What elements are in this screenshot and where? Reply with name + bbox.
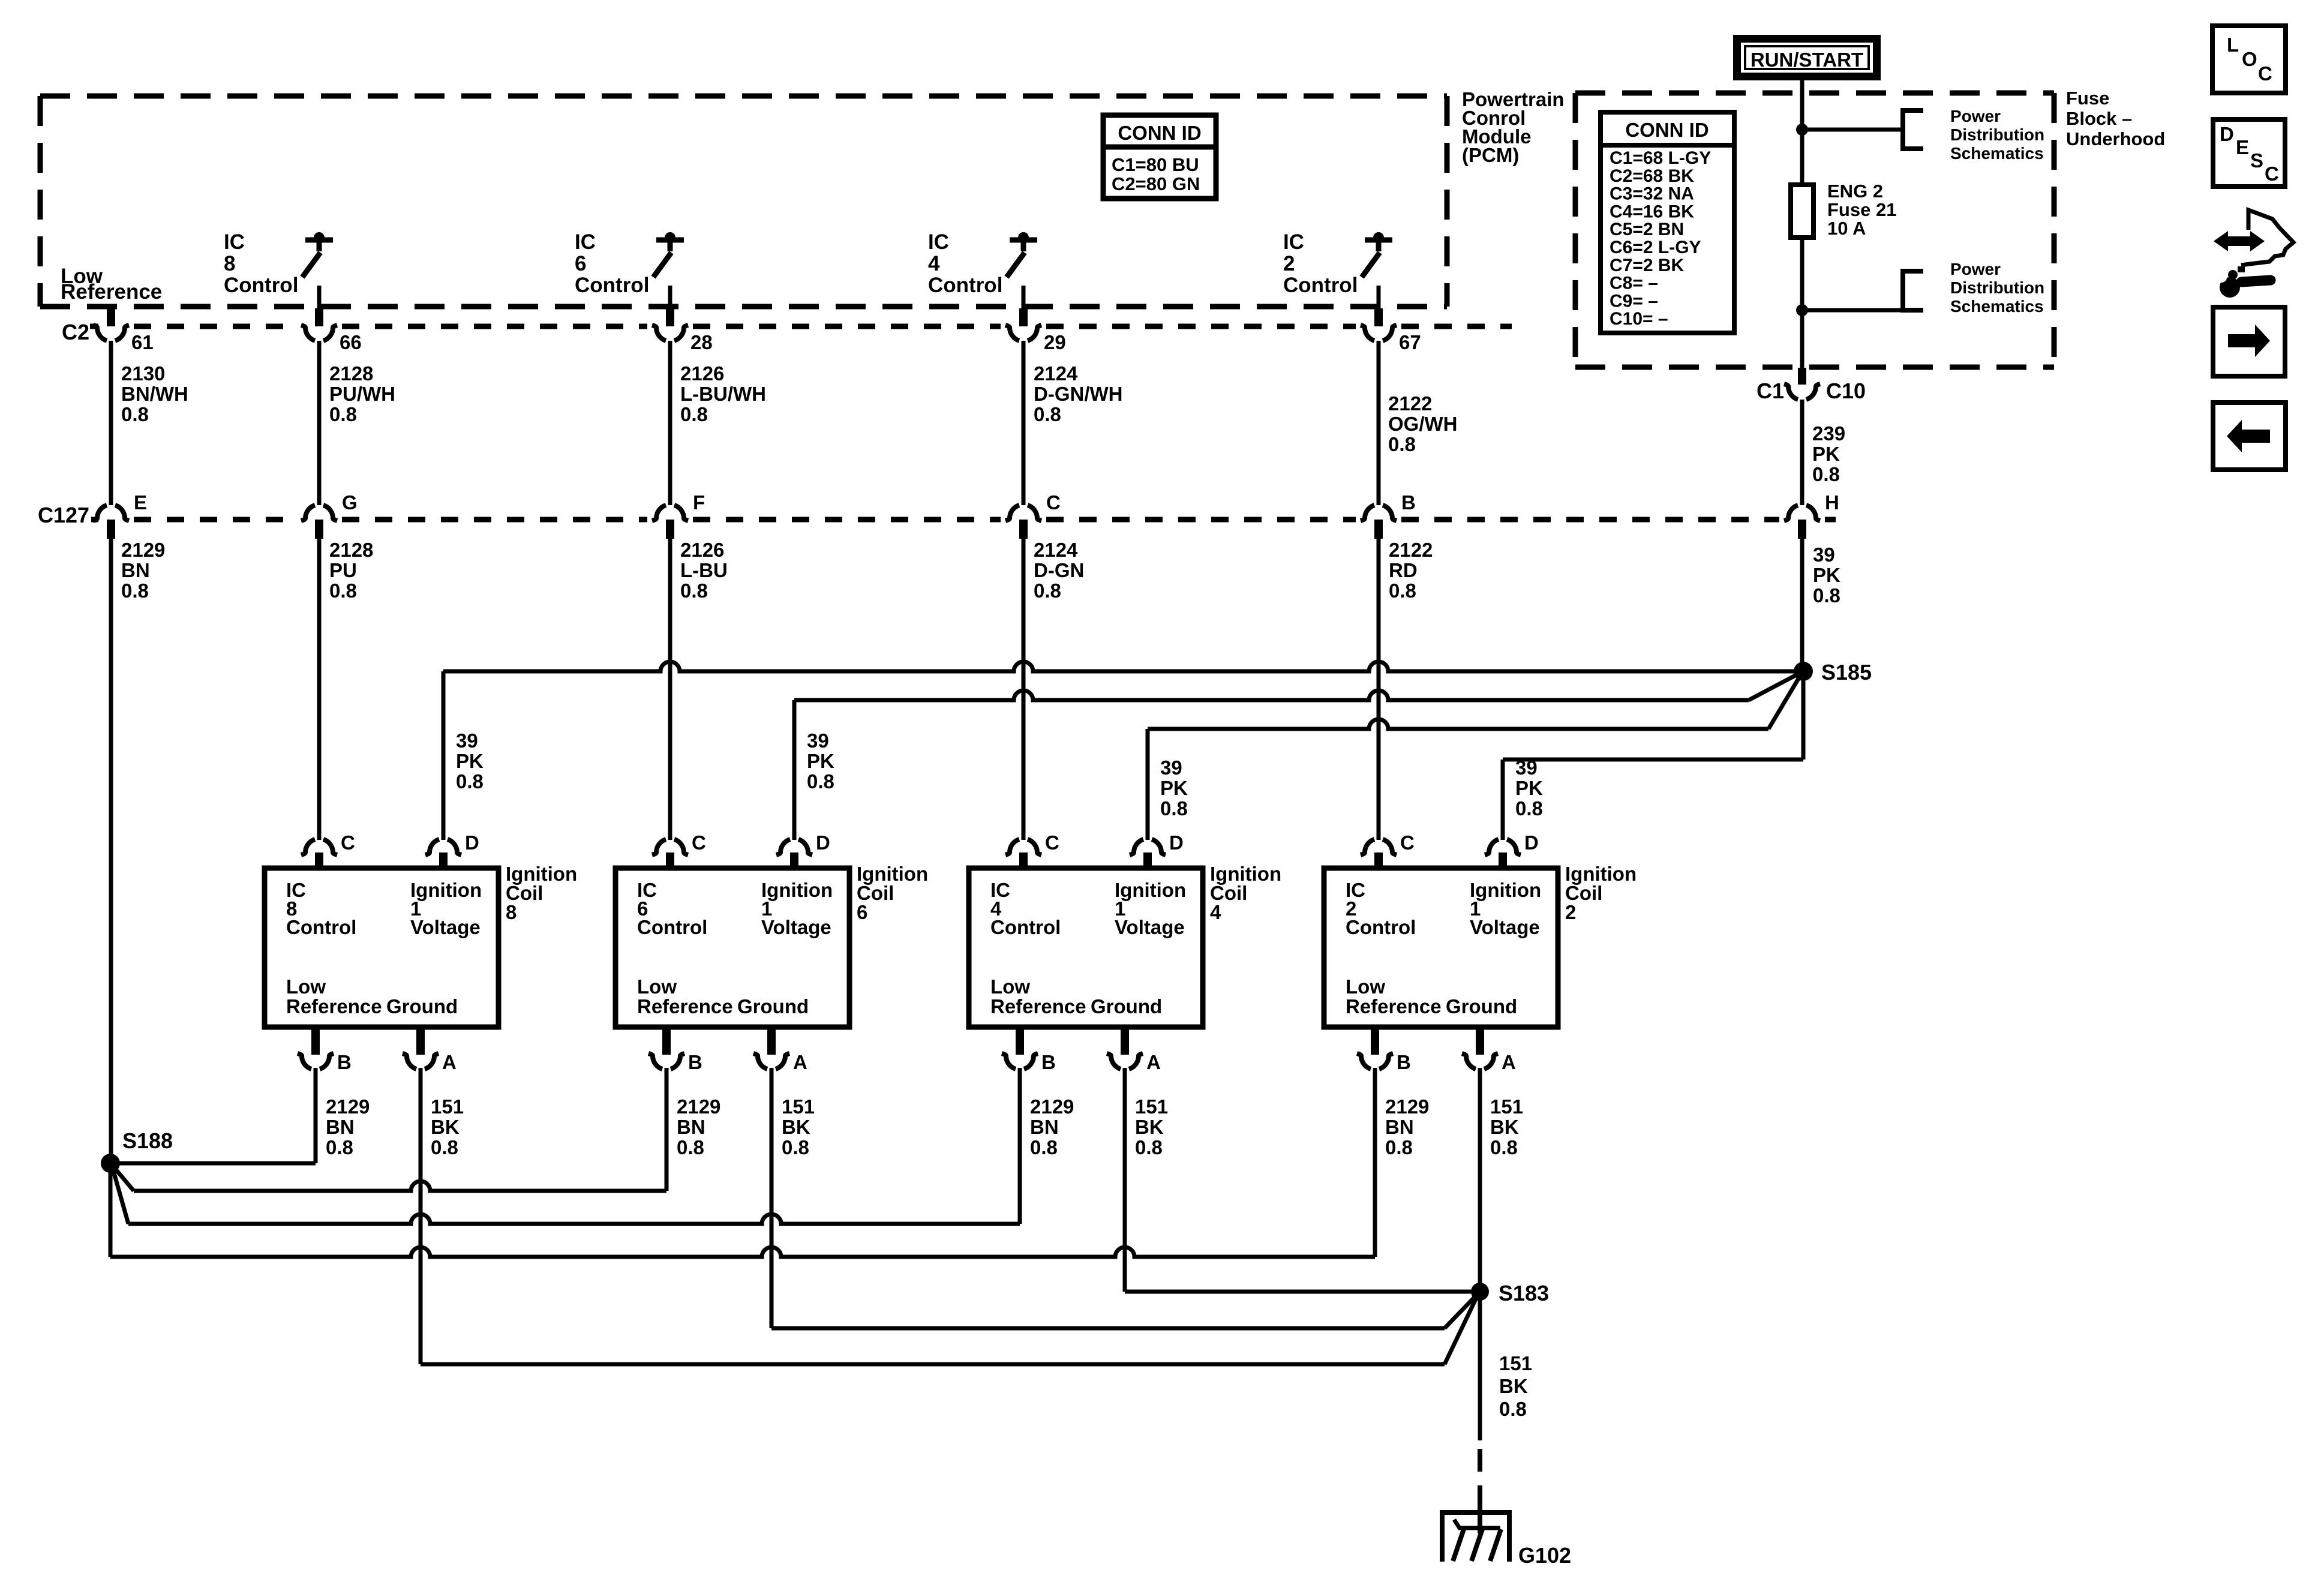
svg-text:0.8: 0.8 <box>1813 584 1840 607</box>
svg-text:Ground: Ground <box>737 995 809 1017</box>
svg-text:C1=68 L-GY: C1=68 L-GY <box>1610 148 1711 168</box>
svg-text:Low: Low <box>1346 975 1385 998</box>
svg-text:0.8: 0.8 <box>1490 1136 1518 1158</box>
svg-text:PK: PK <box>1812 443 1840 465</box>
svg-text:0.8: 0.8 <box>329 580 357 602</box>
svg-text:L: L <box>2227 34 2239 56</box>
svg-text:Underhood: Underhood <box>2066 128 2165 149</box>
svg-text:67: 67 <box>1399 331 1421 353</box>
svg-text:Voltage: Voltage <box>410 916 481 938</box>
svg-text:C1: C1 <box>1756 379 1784 403</box>
svg-text:2: 2 <box>1283 252 1295 275</box>
svg-text:2128: 2128 <box>329 362 373 385</box>
svg-text:39: 39 <box>807 730 829 752</box>
svg-text:Low: Low <box>990 975 1030 998</box>
svg-text:BK: BK <box>782 1116 810 1138</box>
svg-text:0.8: 0.8 <box>680 580 708 602</box>
svg-text:0.8: 0.8 <box>456 770 484 792</box>
svg-text:Distribution: Distribution <box>1950 278 2044 297</box>
svg-text:0.8: 0.8 <box>1135 1136 1163 1158</box>
svg-text:S183: S183 <box>1499 1281 1549 1305</box>
svg-text:S188: S188 <box>122 1128 173 1153</box>
svg-text:0.8: 0.8 <box>1515 797 1543 819</box>
svg-text:2129: 2129 <box>1385 1095 1429 1118</box>
svg-text:O: O <box>2242 48 2257 70</box>
svg-text:4: 4 <box>928 252 940 275</box>
svg-text:D: D <box>1524 831 1539 854</box>
svg-text:C: C <box>341 831 355 854</box>
svg-text:S: S <box>2250 149 2263 172</box>
svg-text:C: C <box>2265 163 2279 185</box>
svg-text:0.8: 0.8 <box>329 403 357 425</box>
svg-text:PK: PK <box>1160 777 1188 799</box>
svg-text:IC: IC <box>575 230 596 254</box>
svg-text:C10= –: C10= – <box>1610 309 1668 329</box>
svg-text:BN: BN <box>121 559 150 581</box>
svg-text:C7=2 BK: C7=2 BK <box>1610 256 1685 275</box>
svg-text:151: 151 <box>1499 1352 1532 1374</box>
svg-text:Voltage: Voltage <box>1115 916 1185 938</box>
svg-text:CONN ID: CONN ID <box>1118 122 1201 144</box>
svg-text:151: 151 <box>782 1095 815 1118</box>
svg-text:2126: 2126 <box>680 539 724 561</box>
svg-text:151: 151 <box>431 1095 464 1118</box>
svg-text:C5=2 BN: C5=2 BN <box>1610 220 1684 239</box>
svg-text:Control: Control <box>928 274 1002 297</box>
svg-text:A: A <box>1502 1051 1516 1073</box>
svg-text:28: 28 <box>690 331 713 353</box>
svg-text:OG/WH: OG/WH <box>1388 413 1457 435</box>
svg-text:A: A <box>793 1051 807 1073</box>
svg-text:0.8: 0.8 <box>807 770 834 792</box>
svg-text:C2=80 GN: C2=80 GN <box>1112 173 1200 194</box>
svg-text:0.8: 0.8 <box>1499 1398 1527 1420</box>
svg-text:E: E <box>134 491 147 514</box>
svg-text:B: B <box>337 1051 352 1073</box>
svg-text:A: A <box>442 1051 457 1073</box>
svg-text:Control: Control <box>1283 274 1358 297</box>
svg-text:2: 2 <box>1565 901 1576 923</box>
svg-text:C: C <box>1045 831 1059 854</box>
svg-text:Control: Control <box>575 274 649 297</box>
svg-text:0.8: 0.8 <box>1812 463 1840 485</box>
svg-text:Voltage: Voltage <box>761 916 831 938</box>
svg-text:Ground: Ground <box>1446 995 1517 1017</box>
svg-text:S185: S185 <box>1821 660 1872 685</box>
svg-text:39: 39 <box>1813 544 1835 566</box>
svg-text:RUN/START: RUN/START <box>1750 49 1863 71</box>
svg-text:Voltage: Voltage <box>1470 916 1540 938</box>
svg-text:Distribution: Distribution <box>1950 125 2044 144</box>
svg-text:(PCM): (PCM) <box>1462 144 1519 166</box>
svg-text:BK: BK <box>1490 1116 1519 1138</box>
svg-text:29: 29 <box>1044 331 1066 353</box>
svg-text:2128: 2128 <box>329 539 373 561</box>
svg-text:A: A <box>1146 1051 1161 1073</box>
svg-text:0.8: 0.8 <box>782 1136 809 1158</box>
svg-text:Schematics: Schematics <box>1950 297 2044 316</box>
svg-text:66: 66 <box>340 331 362 353</box>
svg-text:Schematics: Schematics <box>1950 144 2044 163</box>
svg-text:4: 4 <box>1210 901 1221 923</box>
svg-text:C4=16 BK: C4=16 BK <box>1610 202 1694 221</box>
svg-text:H: H <box>1825 491 1839 514</box>
svg-text:C: C <box>2258 62 2272 85</box>
svg-text:B: B <box>1401 491 1416 514</box>
svg-text:2122: 2122 <box>1389 539 1433 561</box>
svg-text:Fuse 21: Fuse 21 <box>1827 199 1896 220</box>
svg-text:C8= –: C8= – <box>1610 274 1658 293</box>
svg-text:2124: 2124 <box>1034 539 1078 561</box>
svg-text:Power: Power <box>1950 260 2001 278</box>
svg-text:C: C <box>1400 831 1415 854</box>
svg-text:0.8: 0.8 <box>1385 1136 1413 1158</box>
svg-text:PU: PU <box>329 559 357 581</box>
svg-text:F: F <box>693 491 705 514</box>
svg-text:0.8: 0.8 <box>1160 797 1188 819</box>
svg-text:C2=68 BK: C2=68 BK <box>1610 166 1694 186</box>
svg-text:C: C <box>1046 491 1061 514</box>
svg-text:IC: IC <box>1283 230 1304 254</box>
svg-text:C: C <box>692 831 706 854</box>
svg-text:PK: PK <box>456 750 484 772</box>
svg-text:C9= –: C9= – <box>1610 291 1658 311</box>
svg-text:Control: Control <box>286 916 356 938</box>
svg-text:D: D <box>2220 123 2234 145</box>
svg-text:61: 61 <box>131 331 154 353</box>
svg-text:C2: C2 <box>62 320 89 344</box>
svg-text:ENG 2: ENG 2 <box>1827 181 1883 202</box>
svg-text:0.8: 0.8 <box>121 580 149 602</box>
svg-text:BK: BK <box>431 1116 460 1138</box>
svg-text:0.8: 0.8 <box>326 1136 353 1158</box>
svg-text:10 A: 10 A <box>1827 218 1866 239</box>
svg-text:0.8: 0.8 <box>121 403 149 425</box>
svg-text:BK: BK <box>1135 1116 1164 1138</box>
svg-text:0.8: 0.8 <box>1034 580 1061 602</box>
svg-text:151: 151 <box>1135 1095 1168 1118</box>
svg-text:Ground: Ground <box>1091 995 1162 1017</box>
svg-text:D: D <box>816 831 830 854</box>
svg-text:0.8: 0.8 <box>1034 403 1061 425</box>
svg-text:C127: C127 <box>38 503 89 527</box>
svg-text:2122: 2122 <box>1388 392 1432 415</box>
svg-text:2129: 2129 <box>326 1095 370 1118</box>
svg-text:BN: BN <box>1385 1116 1414 1138</box>
svg-text:2124: 2124 <box>1034 362 1078 385</box>
svg-text:BK: BK <box>1499 1375 1528 1397</box>
svg-text:RD: RD <box>1389 559 1418 581</box>
svg-text:IC: IC <box>224 230 245 254</box>
svg-text:2129: 2129 <box>121 539 165 561</box>
svg-text:0.8: 0.8 <box>677 1136 704 1158</box>
svg-text:0.8: 0.8 <box>1030 1136 1058 1158</box>
svg-text:Fuse: Fuse <box>2066 88 2109 109</box>
svg-text:B: B <box>1041 1051 1056 1073</box>
svg-text:0.8: 0.8 <box>680 403 708 425</box>
svg-text:Control: Control <box>224 274 298 297</box>
svg-text:39: 39 <box>1160 757 1182 779</box>
svg-text:BN: BN <box>677 1116 705 1138</box>
svg-text:Control: Control <box>990 916 1061 938</box>
svg-text:D: D <box>1169 831 1184 854</box>
svg-text:D-GN/WH: D-GN/WH <box>1034 383 1122 405</box>
svg-text:2129: 2129 <box>677 1095 720 1118</box>
svg-text:L-BU/WH: L-BU/WH <box>680 383 766 405</box>
svg-text:0.8: 0.8 <box>1388 433 1416 455</box>
svg-text:PK: PK <box>1813 564 1840 586</box>
svg-text:C6=2 L-GY: C6=2 L-GY <box>1610 238 1701 257</box>
svg-text:C10: C10 <box>1826 379 1866 403</box>
svg-text:E: E <box>2236 136 2249 158</box>
svg-text:Reference: Reference <box>637 995 733 1017</box>
svg-text:D-GN: D-GN <box>1034 559 1084 581</box>
svg-text:8: 8 <box>506 901 517 923</box>
svg-text:Control: Control <box>637 916 707 938</box>
svg-text:Low: Low <box>637 975 677 998</box>
svg-text:CONN ID: CONN ID <box>1625 119 1709 141</box>
svg-text:D: D <box>465 831 479 854</box>
svg-text:0.8: 0.8 <box>1389 580 1416 602</box>
svg-text:IC: IC <box>928 230 949 254</box>
svg-text:C3=32 NA: C3=32 NA <box>1610 184 1694 204</box>
svg-text:39: 39 <box>456 730 478 752</box>
svg-text:C1=80 BU: C1=80 BU <box>1112 154 1199 175</box>
svg-text:2126: 2126 <box>680 362 724 385</box>
svg-text:Ground: Ground <box>386 995 458 1017</box>
svg-text:PK: PK <box>807 750 834 772</box>
svg-text:0.8: 0.8 <box>431 1136 458 1158</box>
svg-text:6: 6 <box>575 252 586 275</box>
svg-text:G102: G102 <box>1518 1543 1571 1568</box>
svg-text:PK: PK <box>1515 777 1543 799</box>
svg-text:239: 239 <box>1812 422 1845 445</box>
svg-text:151: 151 <box>1490 1095 1523 1118</box>
svg-text:BN: BN <box>1030 1116 1059 1138</box>
svg-text:Reference: Reference <box>286 995 382 1017</box>
svg-text:Reference: Reference <box>1346 995 1442 1017</box>
svg-text:L-BU: L-BU <box>680 559 728 581</box>
svg-text:6: 6 <box>857 901 867 923</box>
svg-text:Low: Low <box>286 975 326 998</box>
svg-text:BN: BN <box>326 1116 355 1138</box>
svg-text:PU/WH: PU/WH <box>329 383 395 405</box>
svg-text:Control: Control <box>1346 916 1416 938</box>
svg-text:2130: 2130 <box>121 362 165 385</box>
svg-text:BN/WH: BN/WH <box>121 383 188 405</box>
svg-text:G: G <box>342 491 358 514</box>
svg-text:B: B <box>688 1051 702 1073</box>
svg-text:Reference: Reference <box>990 995 1086 1017</box>
svg-text:2129: 2129 <box>1030 1095 1074 1118</box>
svg-text:B: B <box>1397 1051 1411 1073</box>
svg-text:Block –: Block – <box>2066 108 2132 129</box>
svg-text:Power: Power <box>1950 107 2001 125</box>
svg-text:Reference: Reference <box>61 280 162 304</box>
svg-text:8: 8 <box>224 252 235 275</box>
